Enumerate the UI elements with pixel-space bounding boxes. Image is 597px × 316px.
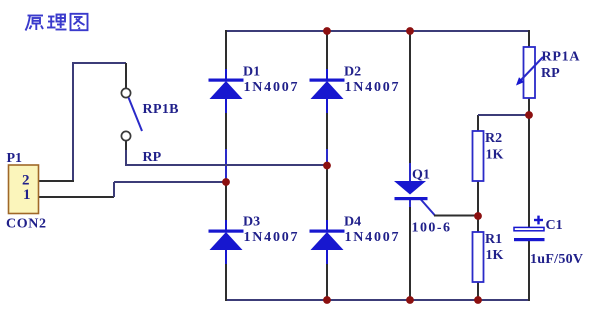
svg-text:1N4007: 1N4007 xyxy=(345,80,399,95)
svg-text:1N4007: 1N4007 xyxy=(244,80,298,95)
thyristor Q1 xyxy=(394,181,428,200)
svg-text:RP1B: RP1B xyxy=(143,102,179,117)
junction pin1 D1 xyxy=(222,178,230,186)
diode D4 xyxy=(310,220,345,264)
svg-text:1uF/50V: 1uF/50V xyxy=(530,252,583,267)
svg-text:D4: D4 xyxy=(344,215,361,230)
svg-text:RP1A: RP1A xyxy=(542,50,581,65)
junction bottom R1 xyxy=(474,296,482,304)
junction bottom D4 xyxy=(323,296,331,304)
diode D2 xyxy=(310,69,345,113)
diode D3 xyxy=(209,220,244,264)
capacitor C1 xyxy=(514,227,545,241)
junction top Q1 xyxy=(406,27,414,35)
wire RP (switch to D2 branch) xyxy=(126,141,327,165)
svg-text:C1: C1 xyxy=(546,218,563,233)
wire P1 pin1 to D1 branch xyxy=(39,182,226,197)
wire left branch upper (D1 branch) xyxy=(225,30,227,301)
potentiometer RP1A xyxy=(516,47,543,98)
svg-text:RP: RP xyxy=(143,150,162,165)
diode D1 xyxy=(209,69,244,113)
wire R2/R1 branch xyxy=(477,115,479,300)
junction gate R1/R2 xyxy=(474,212,482,220)
svg-text:R2: R2 xyxy=(485,131,502,146)
svg-text:D3: D3 xyxy=(243,215,260,230)
resistor R1 xyxy=(473,232,484,282)
title 原理图 (hand-drawn strokes) xyxy=(26,14,88,31)
svg-text:CON2: CON2 xyxy=(6,217,46,232)
svg-text:1N4007: 1N4007 xyxy=(244,230,298,245)
wire top rail xyxy=(226,30,529,32)
svg-text:P1: P1 xyxy=(7,151,23,166)
resistor R2 xyxy=(473,131,484,181)
junction RP wire D2 xyxy=(323,162,331,170)
connector P1 xyxy=(9,165,39,214)
wire Q1 branch xyxy=(409,31,411,300)
svg-text:RP: RP xyxy=(541,66,560,81)
wire Q1 gate xyxy=(420,199,478,216)
wire switch top feed xyxy=(73,63,126,182)
svg-text:Q1: Q1 xyxy=(412,168,430,183)
wire bottom rail xyxy=(226,299,529,301)
switch RP1B xyxy=(121,88,142,140)
svg-text:R1: R1 xyxy=(485,232,502,247)
svg-text:1K: 1K xyxy=(486,148,504,163)
svg-text:1: 1 xyxy=(23,187,31,203)
svg-text:D1: D1 xyxy=(243,65,260,80)
wire P1 pin2 stub xyxy=(39,180,74,182)
capacitor C1 plus sign xyxy=(534,216,543,225)
svg-text:1N4007: 1N4007 xyxy=(345,230,399,245)
svg-text:D2: D2 xyxy=(344,65,361,80)
svg-text:100-6: 100-6 xyxy=(412,221,451,236)
wire RP1A/C1 branch xyxy=(528,30,530,301)
junction RP1A bottom xyxy=(525,111,533,119)
junction top D2 xyxy=(323,27,331,35)
junction bottom Q1 xyxy=(406,296,414,304)
wire R2 top to RP1A branch xyxy=(478,114,529,116)
svg-text:1K: 1K xyxy=(486,248,504,263)
wire middle branch (D2/D4 branch) xyxy=(326,31,328,300)
